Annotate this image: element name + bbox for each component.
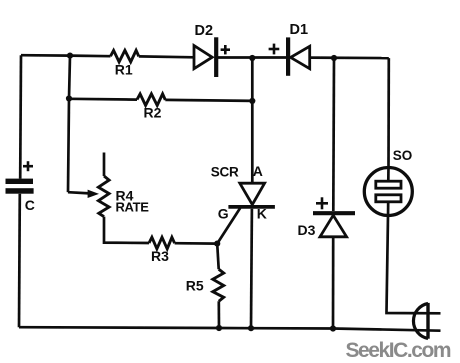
- wire top rail left segment: [21, 55, 111, 56]
- svg-text:G: G: [218, 205, 229, 221]
- wire SCR anode vertical: [251, 58, 254, 183]
- svg-text:R3: R3: [151, 248, 169, 264]
- wire R1 to D2: [139, 55, 194, 59]
- wire SCR cathode: [250, 209, 254, 328]
- wire D1 to right corner: [310, 56, 389, 59]
- node cathode bottom: [248, 325, 254, 331]
- node junction top rail / SCR anode: [249, 55, 255, 61]
- svg-text:K: K: [257, 206, 267, 222]
- potentiometer R4 stub: [103, 153, 106, 177]
- wire arrow feed (left to R4 wiper): [68, 192, 90, 193]
- wire SCR gate diagonal: [217, 208, 240, 244]
- svg-text:SeekIC.com: SeekIC.com: [346, 339, 451, 362]
- diode D1: [288, 37, 310, 75]
- wire right vertical to socket: [387, 58, 390, 167]
- svg-text:D1: D1: [290, 22, 309, 38]
- wire R2 to SCR anode line: [165, 100, 252, 101]
- capacitor C: [6, 179, 34, 194]
- wire R4 to R3: [104, 217, 149, 243]
- svg-text:C: C: [25, 197, 35, 213]
- label plus D2: [221, 45, 230, 54]
- resistor R3: [149, 237, 175, 249]
- svg-text:R1: R1: [115, 61, 133, 77]
- svg-text:D3: D3: [298, 222, 316, 238]
- svg-text:SO: SO: [393, 148, 413, 163]
- node junction D3 bottom: [330, 325, 336, 331]
- wire gate node to R5: [217, 244, 219, 270]
- resistor R1: [111, 50, 139, 62]
- node junction R2 / anode line: [249, 98, 255, 104]
- socket SO: [364, 167, 412, 217]
- potentiometer R4 element: [98, 176, 109, 217]
- diode D2: [194, 37, 216, 77]
- node gate junction: [214, 241, 220, 247]
- plug P1: [413, 303, 428, 339]
- label plus D1: [269, 44, 280, 55]
- wire R3 to gate node: [175, 242, 218, 245]
- diode D3: [313, 213, 355, 237]
- wire left vertical (top rail to capacitor): [19, 55, 22, 178]
- svg-text:A: A: [253, 163, 263, 179]
- svg-text:R5: R5: [186, 277, 204, 293]
- node junction top-left: [67, 53, 73, 59]
- potentiometer R4 wiper arrowhead: [88, 190, 99, 198]
- node junction D1 / D3 branch: [331, 55, 337, 61]
- SCR U1: [228, 183, 275, 207]
- wire R2 rail: [69, 97, 137, 100]
- wire capacitor to bottom rail: [18, 194, 21, 328]
- wire R5 to bottom rail: [217, 301, 220, 328]
- label plus D3: [316, 197, 328, 209]
- wire socket to plug: [387, 216, 441, 314]
- node R5 bottom: [216, 325, 222, 331]
- node junction R2 branch: [66, 95, 72, 101]
- wire D3 to bottom rail: [332, 237, 335, 329]
- label plus C: [23, 161, 33, 171]
- wire left branch vertical: [68, 56, 70, 193]
- wire D3 branch vertical: [332, 58, 335, 211]
- svg-text:RATE: RATE: [116, 200, 150, 215]
- wire bottom rail: [19, 327, 441, 331]
- svg-text:D2: D2: [195, 23, 214, 39]
- resistor R2: [137, 94, 165, 106]
- svg-text:R2: R2: [144, 104, 162, 120]
- svg-text:SCR: SCR: [211, 164, 239, 179]
- wire D2 to D1: [218, 56, 286, 59]
- resistor R5: [213, 269, 224, 301]
